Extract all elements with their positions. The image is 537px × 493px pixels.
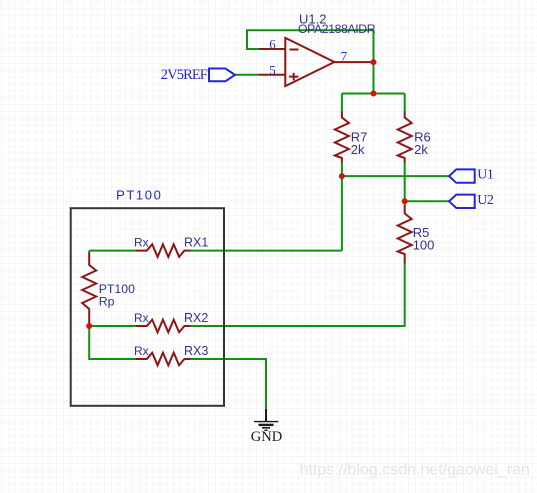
wire left vertical of PT100 down to RX3 bbox=[89, 251, 136, 359]
svg-text:RX3: RX3 bbox=[184, 344, 208, 358]
svg-text:2V5REF: 2V5REF bbox=[161, 67, 208, 83]
wire U2 row bbox=[405, 200, 450, 202]
svg-text:U2: U2 bbox=[477, 193, 494, 208]
wire feedback from output to pin 6 bbox=[247, 30, 374, 93]
svg-text:GND: GND bbox=[251, 429, 282, 445]
port U1 bbox=[449, 169, 475, 182]
PT100 block box bbox=[71, 208, 224, 406]
svg-text:U1: U1 bbox=[477, 168, 494, 183]
svg-text:RX1: RX1 bbox=[184, 236, 208, 250]
svg-text:7: 7 bbox=[341, 48, 348, 63]
svg-text:RX2: RX2 bbox=[184, 311, 208, 325]
resistor RX3 bbox=[136, 353, 190, 366]
ground bbox=[254, 409, 278, 431]
junction feedback / divider top bbox=[371, 91, 377, 97]
resistor R7 bbox=[335, 111, 349, 162]
svg-text:6: 6 bbox=[269, 36, 276, 51]
wire R7 body vertical green parts bbox=[341, 94, 343, 177]
junction Rp / RX2 node bbox=[86, 323, 92, 329]
junction U2 node bbox=[402, 198, 408, 204]
svg-text:Rx: Rx bbox=[134, 344, 149, 358]
svg-text:Rp: Rp bbox=[99, 294, 115, 308]
resistor RX2 bbox=[136, 320, 190, 333]
junction U1 node bbox=[339, 173, 345, 179]
op-amp U1.2 bbox=[259, 38, 374, 86]
wire U1 row bbox=[342, 175, 450, 177]
wire RX3 to GND corner bbox=[190, 359, 266, 409]
port U2 bbox=[449, 195, 475, 208]
svg-text:2k: 2k bbox=[351, 142, 365, 157]
svg-text:5: 5 bbox=[269, 62, 276, 77]
wire 2V5REF port to pin 5 bbox=[235, 74, 260, 76]
svg-text:Rx: Rx bbox=[134, 236, 149, 250]
resistor R6 bbox=[398, 111, 412, 162]
svg-text:OPA2188AIDR: OPA2188AIDR bbox=[298, 22, 376, 36]
svg-text:https://blog.csdn.net/gaowei_r: https://blog.csdn.net/gaowei_ran bbox=[300, 462, 530, 479]
svg-text:Rx: Rx bbox=[134, 311, 149, 325]
port 2V5REF bbox=[209, 69, 235, 82]
wire RX1 row bbox=[89, 250, 342, 252]
wire R5 bottom down and left to RX2 row bbox=[89, 264, 405, 327]
resistor Rp (PT100) bbox=[82, 253, 96, 325]
svg-text:100: 100 bbox=[413, 237, 435, 252]
wire R6 body vertical green parts bbox=[404, 94, 406, 202]
resistor R5 bbox=[398, 204, 412, 263]
resistor RX1 bbox=[136, 244, 190, 257]
svg-text:2k: 2k bbox=[414, 142, 428, 157]
wire top of R7 to top of R6 bbox=[342, 93, 405, 95]
svg-text:PT100: PT100 bbox=[116, 188, 162, 203]
junction output pin7 bbox=[371, 59, 377, 65]
wire junction U1 down to RX1 row bbox=[341, 176, 343, 251]
